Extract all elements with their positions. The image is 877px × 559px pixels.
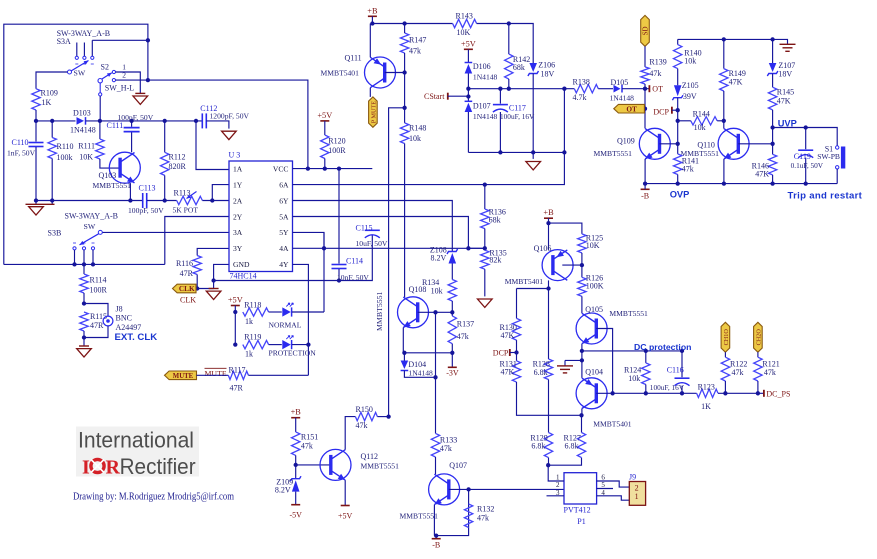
svg-text:47k: 47k (409, 47, 421, 56)
svg-text:CStart: CStart (424, 92, 445, 101)
svg-text:10k: 10k (694, 123, 706, 132)
svg-text:+5V: +5V (228, 296, 243, 305)
svg-text:R116: R116 (176, 259, 193, 268)
svg-text:47k: 47k (457, 332, 469, 341)
svg-text:1N4148: 1N4148 (70, 126, 96, 135)
svg-text:10k: 10k (409, 134, 421, 143)
svg-text:MMBT5551: MMBT5551 (361, 462, 400, 471)
svg-text:+B: +B (291, 408, 302, 417)
svg-text:D103: D103 (73, 109, 91, 118)
svg-text:C115: C115 (356, 223, 373, 232)
svg-text:1: 1 (635, 492, 639, 501)
svg-text:R114: R114 (90, 276, 107, 285)
svg-text:-B: -B (432, 541, 440, 550)
svg-text:R109: R109 (41, 89, 58, 98)
svg-text:820R: 820R (169, 162, 187, 171)
svg-text:CLK: CLK (179, 284, 195, 293)
svg-text:47k: 47k (356, 421, 368, 430)
svg-text:47k: 47k (764, 368, 776, 377)
svg-text:C114: C114 (346, 257, 363, 266)
svg-text:S2: S2 (101, 62, 109, 71)
svg-text:1k: 1k (245, 317, 253, 326)
svg-text:I: I (82, 457, 90, 479)
svg-text:5Y: 5Y (279, 228, 289, 237)
svg-text:6.8k: 6.8k (534, 368, 548, 377)
svg-text:SW-3WAY_A-B: SW-3WAY_A-B (65, 212, 118, 221)
svg-text:MMBT5401: MMBT5401 (505, 277, 544, 286)
svg-text:18V: 18V (541, 70, 555, 79)
svg-text:6.8k: 6.8k (565, 442, 579, 451)
svg-text:VCC: VCC (273, 164, 289, 173)
svg-text:BNC: BNC (116, 314, 132, 323)
svg-text:47K: 47K (729, 78, 743, 87)
svg-text:Q105: Q105 (585, 305, 603, 314)
svg-text:2Y: 2Y (233, 212, 243, 221)
svg-text:+5V: +5V (461, 39, 476, 48)
svg-text:1N4148: 1N4148 (408, 369, 433, 378)
svg-text:D106: D106 (473, 62, 491, 71)
svg-text:100uF, 16V: 100uF, 16V (650, 383, 685, 392)
svg-text:DC_PS: DC_PS (766, 389, 790, 398)
svg-text:NORMAL: NORMAL (269, 321, 302, 330)
svg-text:MMBT5401: MMBT5401 (593, 420, 632, 429)
svg-text:D107: D107 (473, 102, 491, 111)
svg-text:R119: R119 (244, 332, 261, 341)
svg-text:MMBT5401: MMBT5401 (321, 69, 360, 78)
svg-text:C111: C111 (107, 121, 124, 130)
svg-text:CH1O: CH1O (723, 329, 730, 346)
svg-text:R: R (106, 457, 121, 479)
svg-text:CLK: CLK (180, 295, 196, 304)
svg-text:DCP: DCP (493, 349, 509, 358)
svg-text:C119: C119 (794, 152, 811, 161)
svg-text:-5V: -5V (289, 511, 302, 520)
svg-text:100k: 100k (57, 153, 73, 162)
svg-text:3A: 3A (233, 228, 243, 237)
svg-text:10uF, 50V: 10uF, 50V (356, 239, 388, 248)
svg-text:D105: D105 (611, 78, 629, 87)
svg-text:0.1uF, 50V: 0.1uF, 50V (791, 161, 824, 170)
svg-text:10k: 10k (628, 374, 640, 383)
svg-text:Z106: Z106 (538, 61, 555, 70)
svg-text:MMBT5551: MMBT5551 (609, 309, 648, 318)
svg-text:Drawing by: M.Rodriguez Mrodr: Drawing by: M.Rodriguez Mrodrig5@irf.com (73, 491, 234, 502)
svg-text:R117: R117 (229, 365, 246, 374)
svg-text:-B: -B (641, 192, 649, 201)
svg-text:Q103: Q103 (99, 171, 117, 180)
svg-text:47R: 47R (90, 321, 104, 330)
svg-text:47K: 47K (501, 331, 515, 340)
svg-text:47K: 47K (755, 170, 769, 179)
svg-text:47R: 47R (230, 384, 244, 393)
svg-text:P MUTE: P MUTE (371, 101, 378, 124)
svg-text:CH2O: CH2O (755, 329, 762, 346)
svg-text:MMBT5551: MMBT5551 (375, 291, 384, 331)
svg-text:68k: 68k (489, 215, 501, 224)
svg-text:A24497: A24497 (116, 323, 142, 332)
svg-text:J8: J8 (116, 305, 123, 314)
svg-text:10K: 10K (586, 241, 600, 250)
svg-text:8.2V: 8.2V (275, 486, 291, 495)
svg-text:47k: 47k (440, 444, 452, 453)
svg-text:OVP: OVP (670, 189, 690, 199)
svg-text:39V: 39V (683, 92, 697, 101)
svg-text:5K POT: 5K POT (173, 205, 199, 214)
svg-text:PVT412: PVT412 (564, 506, 591, 515)
svg-text:MUTE: MUTE (205, 369, 227, 378)
svg-text:8.2V: 8.2V (431, 254, 447, 263)
svg-text:1K: 1K (42, 98, 52, 107)
svg-text:82k: 82k (489, 256, 501, 265)
svg-text:Q104: Q104 (585, 367, 603, 376)
svg-text:J9: J9 (629, 473, 636, 482)
svg-text:-3V: -3V (446, 368, 459, 377)
svg-text:5A: 5A (279, 212, 289, 221)
svg-text:R115: R115 (90, 312, 107, 321)
svg-text:6Y: 6Y (279, 196, 289, 205)
svg-text:Q109: Q109 (617, 136, 635, 145)
svg-text:74HC14: 74HC14 (230, 271, 257, 280)
svg-text:R139: R139 (649, 58, 666, 67)
svg-text:1K: 1K (701, 402, 711, 411)
svg-text:100K: 100K (586, 281, 604, 290)
svg-text:SW_H-L: SW_H-L (105, 84, 134, 93)
svg-text:4A: 4A (279, 244, 289, 253)
svg-text:1Y: 1Y (233, 180, 243, 189)
svg-text:PROTECTION: PROTECTION (269, 348, 317, 357)
svg-text:R143: R143 (456, 12, 473, 21)
svg-text:Q106: Q106 (534, 244, 552, 253)
svg-text:4Y: 4Y (279, 260, 289, 269)
svg-text:R110: R110 (57, 142, 74, 151)
svg-text:47R: 47R (180, 269, 194, 278)
svg-text:1N4148: 1N4148 (473, 73, 498, 82)
svg-text:+B: +B (367, 6, 378, 15)
svg-text:R120: R120 (328, 137, 345, 146)
svg-text:R150: R150 (356, 405, 373, 414)
svg-text:Q112: Q112 (361, 452, 378, 461)
svg-text:SW-PB: SW-PB (817, 152, 840, 161)
svg-text:R144: R144 (693, 109, 710, 118)
svg-text:100pF, 50V: 100pF, 50V (128, 206, 164, 215)
svg-text:+5V: +5V (338, 512, 353, 521)
svg-text:1N4148: 1N4148 (610, 94, 635, 103)
svg-text:Rectifier: Rectifier (120, 454, 196, 479)
svg-text:S3A: S3A (57, 37, 71, 46)
svg-text:C113: C113 (139, 183, 156, 192)
svg-text:MUTE: MUTE (173, 373, 194, 380)
svg-text:OT: OT (626, 104, 637, 113)
svg-text:10k: 10k (684, 57, 696, 66)
svg-text:C116: C116 (667, 366, 684, 375)
svg-text:2A: 2A (233, 196, 243, 205)
svg-text:47k: 47k (649, 69, 661, 78)
svg-text:68k: 68k (513, 63, 525, 72)
svg-text:+5V: +5V (317, 111, 332, 120)
svg-text:1200pF, 50V: 1200pF, 50V (210, 111, 250, 120)
svg-text:47k: 47k (477, 514, 489, 523)
svg-text:R145: R145 (777, 88, 794, 97)
svg-text:Q108: Q108 (409, 285, 427, 294)
svg-text:47k: 47k (732, 368, 744, 377)
svg-text:R148: R148 (409, 124, 426, 133)
svg-text:1k: 1k (245, 350, 253, 359)
svg-text:SD: SD (642, 26, 650, 35)
svg-text:100R: 100R (328, 146, 346, 155)
svg-text:GND: GND (233, 260, 250, 269)
svg-text:R147: R147 (409, 36, 426, 45)
svg-text:R132: R132 (477, 505, 494, 514)
svg-text:Q107: Q107 (449, 461, 467, 470)
svg-text:S3B: S3B (48, 228, 62, 237)
svg-text:10nF, 50V: 10nF, 50V (337, 273, 369, 282)
svg-text:10K: 10K (457, 28, 471, 37)
svg-text:P1: P1 (577, 517, 585, 526)
svg-text:Trip and restart: Trip and restart (788, 191, 863, 202)
svg-text:Z105: Z105 (682, 81, 699, 90)
svg-text:4.7k: 4.7k (573, 93, 587, 102)
svg-text:MMBT5551: MMBT5551 (93, 181, 132, 190)
svg-text:R137: R137 (457, 320, 474, 329)
svg-text:10k: 10k (431, 286, 443, 295)
svg-text:10K: 10K (79, 153, 93, 162)
svg-text:47K: 47K (777, 96, 791, 105)
svg-text:OT: OT (652, 85, 663, 94)
svg-text:100R: 100R (90, 286, 108, 295)
svg-text:1A: 1A (233, 164, 243, 173)
svg-text:R123: R123 (698, 383, 715, 392)
svg-text:47k: 47k (301, 441, 313, 450)
svg-text:18V: 18V (778, 69, 792, 78)
svg-text:SW: SW (84, 222, 96, 231)
svg-text:47k: 47k (682, 165, 694, 174)
svg-text:R113: R113 (174, 188, 191, 197)
svg-text:R118: R118 (244, 300, 261, 309)
svg-text:6A: 6A (279, 180, 289, 189)
svg-text:100uF, 16V: 100uF, 16V (500, 112, 535, 121)
svg-text:MMBT5551: MMBT5551 (400, 512, 439, 521)
svg-text:3Y: 3Y (233, 244, 243, 253)
svg-text:DCP: DCP (653, 108, 669, 117)
svg-text:International: International (78, 428, 194, 453)
svg-text:MMBT5551: MMBT5551 (594, 149, 633, 158)
svg-text:+B: +B (543, 208, 554, 217)
svg-text:R111: R111 (78, 142, 95, 151)
svg-text:47K: 47K (501, 367, 515, 376)
svg-text:R112: R112 (169, 153, 186, 162)
svg-text:Q111: Q111 (345, 54, 362, 63)
svg-text:R151: R151 (301, 433, 318, 442)
svg-text:DC protection: DC protection (634, 342, 691, 352)
svg-text:1nF, 50V: 1nF, 50V (7, 149, 36, 158)
svg-text:EXT. CLK: EXT. CLK (115, 332, 158, 343)
svg-text:U 3: U 3 (229, 151, 241, 160)
svg-text:R138: R138 (573, 78, 590, 87)
svg-text:6.8k: 6.8k (531, 442, 545, 451)
svg-text:1N4148: 1N4148 (473, 112, 498, 121)
svg-text:C110: C110 (12, 138, 29, 147)
svg-text:SW: SW (74, 68, 86, 77)
